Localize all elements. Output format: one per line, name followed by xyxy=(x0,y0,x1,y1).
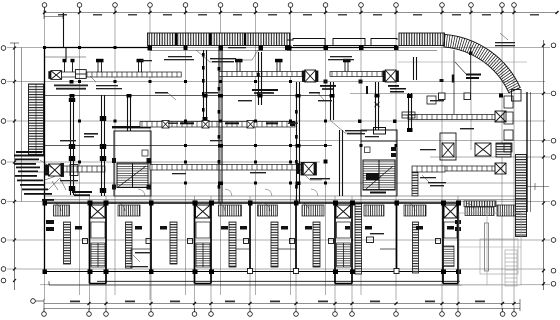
core bottoms xyxy=(90,283,459,285)
left fence line xyxy=(21,48,23,202)
right area duct row a xyxy=(408,115,495,120)
left stair ladder xyxy=(29,84,44,156)
grid vertical lines xyxy=(45,8,515,310)
left legend leaders xyxy=(38,160,60,190)
top parapet strip xyxy=(287,39,397,46)
grid horizontal lines xyxy=(7,48,550,285)
stairwell A xyxy=(114,131,151,196)
core mid boxes xyxy=(91,222,457,238)
L duct xyxy=(412,166,445,196)
column markers xyxy=(43,46,398,185)
unit door arcs xyxy=(53,203,474,211)
core stairs lower xyxy=(91,243,351,267)
duct row 3 left xyxy=(62,166,105,172)
duct run 1b xyxy=(219,72,305,77)
unit partitions xyxy=(131,249,397,260)
bottom left extra bubble xyxy=(31,299,44,304)
duct branch risers xyxy=(65,62,349,72)
top hatch band 1 xyxy=(148,33,291,46)
interior wall y95 xyxy=(45,95,331,97)
grid bubbles left xyxy=(1,46,6,283)
top dimension line xyxy=(44,12,557,14)
elevator core 3 xyxy=(336,205,351,218)
grid bubble stems top xyxy=(45,7,515,13)
inner top wall line xyxy=(45,51,438,58)
grid bubbles top xyxy=(42,3,516,8)
annotation leaders xyxy=(90,33,508,262)
fan unit row3 left xyxy=(46,164,79,177)
scattered text annotations xyxy=(60,42,515,267)
duct caps xyxy=(70,94,380,185)
elevators mid right xyxy=(440,133,511,160)
corridor walls xyxy=(45,196,528,200)
top sub dimension line xyxy=(44,10,63,19)
curved hatch band xyxy=(444,34,520,92)
grid bubbles right xyxy=(551,43,556,286)
interior wall y145 xyxy=(45,145,333,147)
duct row 2 xyxy=(140,121,295,129)
column blobs on unit walls xyxy=(43,201,462,275)
elevator core 1 xyxy=(91,205,106,218)
lower terrace lines xyxy=(97,280,460,282)
duct run 1c xyxy=(330,72,385,77)
unit upper stairs (vertical rung blocks) xyxy=(54,205,516,216)
unit right-wall fixtures xyxy=(83,237,441,244)
bottom right faint structure xyxy=(459,213,521,285)
fan unit mid xyxy=(303,70,318,82)
top hatch band 2 xyxy=(399,33,445,46)
open square markers bottom wall xyxy=(248,269,400,274)
dimension text top xyxy=(58,14,539,16)
band1 dividers xyxy=(175,34,246,46)
unit shafts vertical xyxy=(64,204,489,274)
columns under hatch band xyxy=(148,46,292,51)
elevator core 2 xyxy=(196,205,211,218)
corridor door arcs xyxy=(69,189,418,196)
dimension tick marks bottom xyxy=(88,302,516,305)
duct row 3 mid xyxy=(150,165,303,171)
left dimension line xyxy=(10,43,19,290)
right area duct row b xyxy=(440,166,495,171)
unit bottom wall xyxy=(45,271,461,273)
right dim tail xyxy=(527,183,549,190)
building outer walls xyxy=(45,48,528,272)
curve end box xyxy=(512,90,522,102)
duct run 1a xyxy=(62,72,182,77)
fan unit left top xyxy=(49,70,86,80)
bottom right ladder column xyxy=(505,250,517,286)
right mid annotation xyxy=(398,62,527,74)
vertical ducts upper area xyxy=(64,13,471,203)
grid bubbles bottom xyxy=(42,312,517,317)
dimension tick marks top xyxy=(43,11,559,14)
core 4 stair xyxy=(444,246,455,267)
unit 458 wall poche xyxy=(464,201,496,207)
elevator core 4 xyxy=(444,205,457,218)
right AHU stack xyxy=(504,96,513,152)
damper symbols xyxy=(375,102,416,118)
right dimension line xyxy=(543,40,545,290)
unit mid fixtures xyxy=(46,220,461,231)
right wall inner line xyxy=(530,92,532,212)
unit top wall xyxy=(45,202,461,204)
small box mid right xyxy=(427,96,436,104)
fan unit mid2 xyxy=(383,70,398,82)
duct joint marks xyxy=(202,53,298,189)
right vertical ladder xyxy=(516,155,527,237)
bottom dimension lines xyxy=(44,299,520,311)
right fan unit a xyxy=(495,111,506,122)
right fan unit b xyxy=(495,163,506,174)
grid bubble stems bottom xyxy=(44,309,514,312)
stairwell B xyxy=(361,128,397,197)
apartment walls xyxy=(90,203,459,284)
left legend text block xyxy=(14,151,52,195)
dimension text bottom xyxy=(70,301,485,303)
fan unit row3 right xyxy=(297,163,317,176)
